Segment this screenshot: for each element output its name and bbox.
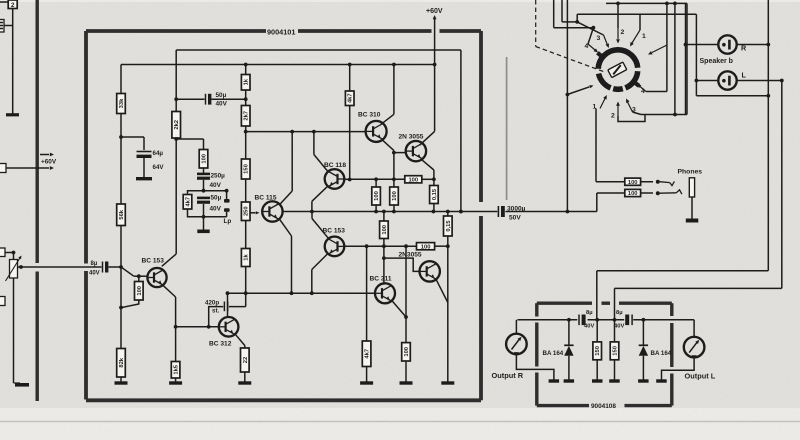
- svg-text:33k: 33k: [119, 98, 125, 108]
- svg-text:150: 150: [244, 164, 250, 174]
- switch contact arrow 1 bottom: [600, 95, 607, 109]
- crease line (scan artifact): [506, 57, 508, 200]
- label R: [741, 44, 747, 53]
- wire 1k5-gnd: [175, 378, 177, 382]
- ground (diode left): [564, 379, 575, 382]
- svg-text:50µ: 50µ: [216, 92, 227, 99]
- wire inner rail (y50): [176, 49, 461, 51]
- wire y139 branch: [176, 139, 203, 150]
- wire BC310 emitter: [382, 140, 396, 155]
- diode BA164 (right): [639, 320, 648, 380]
- wire 100R to divider: [119, 300, 139, 309]
- svg-text:64V: 64V: [153, 164, 165, 171]
- svg-text:4: 4: [641, 88, 645, 95]
- switch contact arrow right: [648, 45, 667, 55]
- switch hook lower: [660, 190, 682, 194]
- label 2 top: [621, 29, 625, 36]
- svg-text:9004108: 9004108: [591, 403, 616, 410]
- wire 33k-56k: [119, 114, 123, 205]
- wire BC153b emitter lead: [312, 254, 328, 293]
- label Output L: [685, 372, 716, 381]
- svg-text:3: 3: [597, 35, 601, 42]
- svg-text:+60V: +60V: [426, 8, 443, 15]
- wire node-bar: [202, 204, 206, 230]
- wire inner rail right drop: [459, 50, 463, 213]
- resistor 4k7 (lower): [362, 341, 371, 367]
- resistor 100 (driver): [199, 150, 208, 169]
- wire pot top: [5, 251, 15, 260]
- resistor 33k: [117, 94, 126, 114]
- svg-text:3000µ: 3000µ: [507, 206, 526, 213]
- ground (meter L): [656, 379, 667, 382]
- svg-text:2N3055: 2N3055: [399, 251, 422, 258]
- svg-text:1: 1: [593, 104, 597, 111]
- contact (phones lower): [656, 191, 660, 195]
- svg-text:BC 312: BC 312: [209, 341, 232, 348]
- switch contact arrow 1 top: [630, 30, 640, 47]
- wire 100-250u: [203, 168, 205, 173]
- wire y179 link: [350, 177, 436, 181]
- resistor 150: [241, 159, 250, 179]
- ground (meter R): [549, 379, 560, 382]
- wire +60V drop: [433, 15, 437, 65]
- resistor 100 (phones lower): [625, 189, 641, 197]
- svg-text:2k2: 2k2: [174, 120, 180, 130]
- wire BC311 emitter: [392, 301, 408, 319]
- wire BC153a collector: [162, 254, 176, 266]
- label Speaker b: [700, 58, 733, 65]
- label 50u upper: [216, 92, 227, 99]
- wire y246 link: [344, 244, 416, 248]
- transistor BC310: [366, 121, 387, 142]
- svg-text:100: 100: [382, 225, 388, 235]
- transistor BC153 (input): [147, 268, 166, 287]
- wire y131 link: [246, 130, 366, 134]
- svg-text:100: 100: [374, 191, 380, 201]
- resistor 100 (horizontal upper): [405, 176, 422, 184]
- wire base arrow BC115: [250, 211, 260, 214]
- wire phones upper feed: [596, 109, 653, 182]
- wire 1k-bc311 node: [245, 267, 247, 294]
- capacitor 50u 40V (frame): [197, 197, 210, 204]
- transistor 2N3055 lower: [420, 261, 440, 281]
- label +60V left: [41, 159, 57, 166]
- +60V feed arrow lower: [6, 166, 54, 170]
- label L: [742, 71, 747, 80]
- resistor 82k: [117, 349, 126, 378]
- wire 100h to 015 node: [435, 244, 450, 248]
- svg-text:150: 150: [613, 346, 619, 356]
- wire switch feed x567: [566, 0, 570, 212]
- wire x406 chain: [405, 246, 407, 342]
- ground (82k): [115, 381, 128, 384]
- resistor 2k2: [172, 112, 181, 139]
- ground (150 left): [592, 379, 603, 382]
- wire 2k7-150: [244, 126, 248, 159]
- switch contact arrow 3 top: [604, 35, 610, 48]
- wire speaker R left: [684, 3, 719, 115]
- svg-text:1k5: 1k5: [174, 364, 180, 374]
- resistor 1k (lower): [241, 249, 250, 267]
- label 9004108: [591, 403, 616, 410]
- wire 015a bottom: [433, 204, 435, 212]
- svg-text:BC 153: BC 153: [142, 258, 165, 265]
- resistor 100 (BC153a): [135, 282, 144, 301]
- svg-text:BC 310: BC 310: [358, 112, 381, 119]
- svg-text:50µ: 50µ: [211, 195, 222, 202]
- wire 015b to gnd: [447, 236, 449, 382]
- svg-text:4: 4: [585, 43, 589, 50]
- svg-text:2N 3055: 2N 3055: [399, 134, 424, 141]
- svg-text:100: 100: [392, 191, 398, 201]
- svg-text:100: 100: [404, 347, 410, 357]
- label 64V: [153, 164, 165, 171]
- label 4 bottom: [641, 88, 645, 95]
- svg-text:BC 153: BC 153: [323, 228, 346, 235]
- label +60V top: [426, 8, 443, 15]
- ground (22): [238, 381, 251, 384]
- wire 2N3055b base link: [384, 258, 420, 271]
- wire 1k-2k7: [244, 90, 248, 106]
- switch contact arrow 3 bottom: [626, 99, 633, 113]
- svg-text:250µ: 250µ: [211, 173, 226, 180]
- wire BC312 base: [174, 325, 219, 329]
- label BC 153 second: [323, 228, 346, 235]
- capacitor (electrolytic bar): [197, 230, 209, 234]
- svg-text:100: 100: [628, 191, 638, 197]
- wire 4k7 down: [348, 106, 352, 182]
- wire speaker L return: [615, 81, 782, 320]
- wire 100 base-R top: [138, 276, 140, 281]
- svg-text:BC 115: BC 115: [255, 195, 277, 202]
- svg-text:40V: 40V: [584, 324, 594, 330]
- label BC 311: [370, 276, 392, 283]
- resistor 150 (right): [610, 320, 619, 380]
- label 3 bottom: [632, 107, 636, 114]
- wire 2k2 bottom: [174, 137, 178, 254]
- svg-text:BA 164: BA 164: [543, 350, 564, 357]
- wire speaker R return: [597, 0, 769, 320]
- label 2N3055 lower: [399, 251, 422, 258]
- wire y293 link: [228, 291, 375, 295]
- meter Output L: [684, 337, 705, 358]
- diode BA164 (left): [564, 320, 573, 380]
- svg-text:40V: 40V: [89, 271, 100, 277]
- wire rail to phones lower: [597, 193, 653, 212]
- label BC 115: [255, 195, 277, 202]
- resistor 4k7 (top): [345, 91, 354, 106]
- wire BC153a emitter: [163, 285, 176, 361]
- label 40V upper: [216, 101, 228, 108]
- label 40V 250u: [210, 182, 222, 189]
- label BC 153 input: [142, 258, 165, 265]
- wire speaker R right: [737, 43, 770, 47]
- wire 33k chain top: [120, 65, 122, 94]
- wire 250-1k: [245, 221, 247, 249]
- transistor BC153 (second): [325, 237, 345, 257]
- wire 22-gnd: [244, 372, 246, 382]
- speaker jack L: [718, 71, 736, 89]
- wire 2N3055a base: [394, 152, 406, 154]
- label 40V left: [584, 324, 594, 330]
- label 3 top: [597, 35, 601, 42]
- capacitor 250u 40V: [197, 173, 210, 180]
- label 9004101: [267, 27, 295, 36]
- wire 82k-gnd: [120, 377, 122, 382]
- wire BC115 emitter: [280, 220, 292, 294]
- wire +60V rail (y64): [121, 63, 437, 67]
- component stub left edge (input): [0, 164, 6, 173]
- input potentiometer (left edge): [6, 256, 22, 282]
- wire 56k-down: [119, 226, 123, 349]
- wire switch bottom 2: [618, 115, 645, 122]
- wire 64u branch: [121, 137, 144, 150]
- resistor 100 (BC311 collector): [380, 212, 389, 239]
- component stub at left edge: [0, 20, 13, 33]
- label 2 bottom: [611, 113, 615, 120]
- label 420p: [205, 300, 219, 307]
- label BC 312: [209, 341, 232, 348]
- wire filter top bus: [518, 318, 695, 322]
- label Output R: [492, 371, 524, 380]
- wire BC312 emitter: [235, 334, 245, 348]
- wire BC311 collector: [382, 239, 386, 284]
- resistor 1k (top): [241, 75, 250, 91]
- wire BC312 collector: [226, 291, 230, 317]
- svg-text:22: 22: [243, 357, 249, 363]
- resistor 1k5: [171, 362, 180, 379]
- wire 4k7low-gnd: [366, 367, 368, 382]
- wire x394 chain: [393, 153, 395, 187]
- switch hook upper: [660, 181, 675, 185]
- label 8u left: [586, 310, 593, 316]
- capacitor 3000u 50V: [498, 206, 504, 217]
- label 3000u: [507, 206, 526, 213]
- wire 250u-node: [202, 180, 206, 193]
- ground (015b): [441, 381, 454, 384]
- svg-text:8µ: 8µ: [91, 261, 98, 267]
- label 64u: [153, 150, 164, 157]
- ground (diode right): [638, 379, 649, 382]
- +60V feed arrow upper: [40, 153, 54, 157]
- ground (100 x406): [400, 381, 413, 384]
- wire 4k7 top chain: [349, 65, 351, 92]
- svg-text:Output L: Output L: [685, 372, 716, 381]
- label 1 top: [642, 33, 646, 40]
- label 40V right: [614, 324, 624, 330]
- svg-text:BA 164: BA 164: [651, 350, 672, 357]
- svg-text:1k: 1k: [244, 78, 250, 85]
- svg-text:BC 311: BC 311: [370, 276, 392, 283]
- svg-text:420p: 420p: [205, 300, 219, 307]
- label Phones: [678, 169, 703, 176]
- wire 100x406-gnd: [405, 361, 407, 382]
- wire RC frame: [188, 191, 204, 217]
- wire pot bottom: [13, 278, 15, 383]
- wire switch riser 675: [673, 2, 677, 115]
- thick bus line left: [36, 0, 39, 401]
- wire meter R bottom: [516, 354, 554, 379]
- resistor 100 (phones upper): [625, 178, 641, 186]
- switch contact arrow 2 bottom: [616, 102, 620, 117]
- wire switch top stub: [576, 14, 578, 22]
- svg-text:100: 100: [137, 286, 143, 296]
- resistor 250 (pot): [241, 202, 250, 221]
- component stub left edge (above pot): [0, 248, 5, 257]
- capacitor 8u 40V input: [83, 262, 122, 273]
- svg-text:8µ: 8µ: [616, 310, 623, 316]
- label 1 bottom: [593, 104, 597, 111]
- contact (phones upper): [656, 180, 660, 184]
- wire switch top b: [554, 0, 596, 44]
- ground (left chain): [6, 113, 19, 116]
- svg-text:2: 2: [11, 2, 15, 9]
- wire switch riser 667: [646, 2, 669, 92]
- resistor 100 (x406): [402, 343, 411, 361]
- capacitor 50u 40V (upper): [176, 94, 246, 105]
- ground (64u): [136, 177, 152, 180]
- svg-text:8µ: 8µ: [586, 310, 593, 316]
- resistor 100 (x394): [390, 187, 399, 212]
- main amplifier box border 9004101: [86, 31, 481, 400]
- svg-text:100: 100: [628, 180, 638, 186]
- svg-text:150: 150: [595, 346, 601, 356]
- svg-text:82k: 82k: [119, 357, 125, 367]
- svg-text:2: 2: [621, 29, 625, 36]
- switch contact arrow 4 left: [588, 44, 598, 53]
- resistor 22: [241, 348, 250, 372]
- wire switch bottom bus: [641, 113, 687, 117]
- svg-text:40V: 40V: [614, 324, 624, 330]
- wire switch bottom 3: [633, 112, 642, 115]
- wire 1k top: [245, 65, 247, 75]
- wire 2k2 chain top: [174, 50, 178, 112]
- resistor (left edge chain, top): [0, 0, 17, 9]
- label 8u right: [616, 310, 623, 316]
- resistor 150 (left): [593, 320, 602, 380]
- phone jack: [686, 178, 699, 223]
- wire BC310 collector: [381, 65, 394, 125]
- capacitor 8u 40V (right): [625, 315, 632, 326]
- transistor BC312: [219, 317, 239, 337]
- resistor 4k7 (frame): [183, 195, 192, 210]
- svg-text:40V: 40V: [210, 206, 222, 213]
- resistor 0,15 (upper): [430, 186, 439, 204]
- wire switch top d: [606, 2, 687, 29]
- wire switch top c: [577, 14, 696, 30]
- wire 150-250: [245, 179, 247, 202]
- wire diag to switch contact: [567, 85, 593, 94]
- wire switch right riser: [686, 3, 688, 114]
- svg-text:Lp: Lp: [224, 218, 232, 225]
- svg-text:L: L: [742, 71, 747, 80]
- component stub left edge (lower): [0, 297, 5, 306]
- wire BC118 emitter lead: [312, 186, 328, 211]
- output filter box border 9004108: [537, 303, 672, 405]
- wire meter R top: [515, 320, 517, 334]
- svg-text:100: 100: [421, 244, 431, 250]
- transistor BC311: [375, 283, 395, 303]
- resistor 100 (x376): [372, 179, 381, 211]
- label BA164 left: [543, 350, 564, 357]
- label 40V frame: [210, 206, 222, 213]
- svg-text:56k: 56k: [119, 209, 125, 219]
- switch Lp (loudness tap): [204, 189, 230, 217]
- resistor 100 (horizontal lower): [417, 243, 435, 251]
- wire BC118 right lead: [344, 178, 349, 180]
- svg-text:40V: 40V: [210, 182, 222, 189]
- meter Output R: [506, 334, 527, 355]
- transistor BC118: [325, 169, 345, 189]
- transistor 2N3055 upper: [406, 141, 426, 161]
- wire 4k7low top: [366, 246, 368, 341]
- ground (pot chain): [14, 383, 30, 387]
- wire BC153b collector lead: [312, 212, 329, 239]
- wire base BC153a: [121, 267, 148, 278]
- svg-text:2k7: 2k7: [244, 111, 250, 121]
- svg-text:Speaker b: Speaker b: [700, 58, 733, 65]
- label BC 310: [358, 112, 381, 119]
- wire y95 link: [696, 94, 770, 98]
- rotary switch ring: [597, 50, 639, 89]
- label 40V input: [89, 271, 100, 277]
- switch contact arrow 4 bottom right: [637, 84, 646, 92]
- svg-text:2: 2: [611, 113, 615, 120]
- wire 2N3055a collector: [420, 65, 435, 146]
- label st: [212, 308, 220, 315]
- wire switch top a: [562, 0, 604, 35]
- wire output rail: [283, 210, 597, 214]
- dashed selector line: [536, 0, 606, 73]
- label Lp: [224, 218, 232, 225]
- svg-text:0,15: 0,15: [432, 188, 438, 200]
- label 50u frame: [211, 195, 222, 202]
- svg-text:st.: st.: [212, 308, 220, 315]
- rotary switch lever: [608, 62, 627, 78]
- resistor 2k7: [241, 106, 250, 127]
- wire meter L top: [693, 320, 695, 337]
- svg-text:0,15: 0,15: [446, 220, 452, 232]
- ground (1k5): [169, 381, 182, 384]
- svg-text:64µ: 64µ: [153, 150, 164, 157]
- svg-text:+60V: +60V: [41, 159, 57, 166]
- wire BC118 upper lead: [314, 132, 328, 172]
- svg-text:BC 118: BC 118: [324, 162, 346, 169]
- svg-text:4k7: 4k7: [186, 197, 192, 207]
- capacitor 420p st: [209, 293, 246, 327]
- svg-text:50V: 50V: [509, 215, 521, 222]
- svg-text:100: 100: [202, 154, 208, 164]
- svg-text:4k7: 4k7: [348, 93, 354, 103]
- resistor 56k: [117, 204, 126, 226]
- resistor 0,15 (lower): [444, 212, 453, 237]
- wire 2N3055b emitter: [436, 280, 448, 303]
- wire input signal: [18, 265, 83, 269]
- wire speaker L left: [695, 14, 719, 96]
- svg-text:1: 1: [642, 33, 646, 40]
- label BA164 right: [651, 350, 672, 357]
- svg-text:9004101: 9004101: [267, 27, 295, 36]
- capacitor 64u 64V: [137, 152, 152, 178]
- wire meter L bottom: [662, 357, 695, 379]
- wire left chain vertical: [12, 9, 14, 114]
- label 2N3055 upper: [399, 134, 424, 141]
- label 8u: [91, 261, 98, 267]
- switch contact arrow 2 top: [616, 28, 620, 44]
- label 250u: [211, 173, 226, 180]
- svg-text:40V: 40V: [216, 101, 228, 108]
- transistor BC115: [262, 201, 282, 221]
